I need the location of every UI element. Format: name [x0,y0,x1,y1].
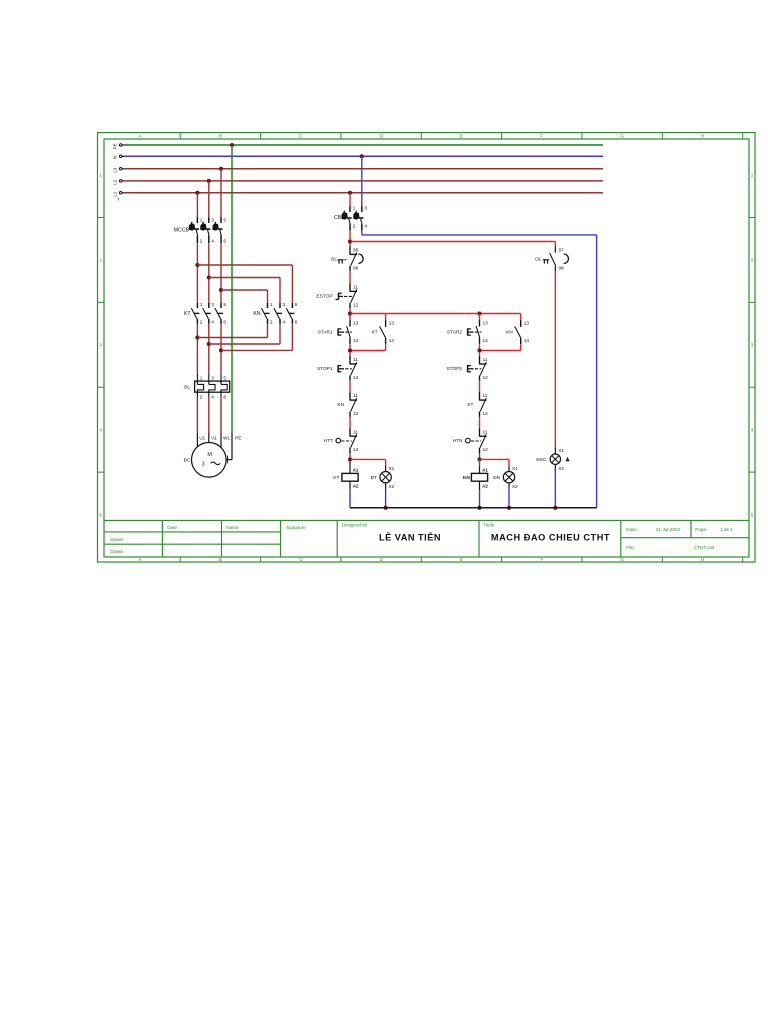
svg-text:3: 3 [282,302,285,308]
svg-text:12: 12 [353,411,359,417]
wire U to motor [196,397,198,433]
junction DT rail [384,506,388,510]
wire DN lamp to rail [508,489,510,508]
junction crossover L1 [195,263,199,267]
svg-text:MACH ĐAO CHIEU CTHT: MACH ĐAO CHIEU CTHT [491,532,610,542]
svg-text:KN: KN [253,311,260,317]
svg-text:11: 11 [353,285,358,291]
svg-text:OL: OL [184,385,191,391]
junction STAR1 out [348,348,352,352]
svg-text:4: 4 [211,239,214,245]
contactor KN main contacts [267,303,269,308]
svg-text:4: 4 [99,427,102,432]
junction DN rail [507,506,511,510]
svg-text:6: 6 [223,239,226,245]
wire KT-HTN [479,417,481,428]
svg-text:12: 12 [353,302,359,308]
svg-text:X2: X2 [389,484,395,489]
svg-text:A1: A1 [353,468,359,473]
svg-text:Signature: Signature [286,525,306,530]
limit switch HTN [479,428,481,436]
wire L1 to CB [349,193,351,207]
svg-text:11: 11 [483,429,488,435]
circuit breaker CB [349,206,351,212]
junction CB out [348,239,352,243]
wire L3 drop [220,169,222,218]
svg-text:14: 14 [483,338,489,344]
wire L1 drop [196,193,198,218]
wire rung2 top [479,314,481,321]
svg-text:Date: Date [167,525,177,530]
svg-text:2: 2 [200,319,203,325]
junction N tap [360,154,364,158]
svg-text:3: 3 [202,462,205,468]
svg-text:G: G [620,133,624,138]
wire STOP1-KN [349,381,351,392]
junction coil KT node [348,457,352,461]
svg-text:6: 6 [223,319,226,325]
svg-text:A2: A2 [353,483,359,488]
svg-text:N: N [112,156,117,159]
svg-text:3: 3 [211,217,214,223]
svg-text:13: 13 [483,320,489,326]
frame row labels 1-5 [98,216,105,218]
svg-text:5: 5 [223,376,226,382]
wire crossover L1-KN5 [197,264,292,266]
svg-text:X2: X2 [512,484,518,489]
svg-text:1: 1 [99,173,102,178]
svg-text:E: E [460,133,463,138]
wire OL-ESTOP [349,271,351,283]
motor M1 [192,443,227,478]
wire node to KT coil [349,459,351,467]
wire KT out V [208,324,210,374]
svg-text:LÊ VAN TIÊN: LÊ VAN TIÊN [379,531,441,542]
svg-text:M: M [207,452,212,458]
svg-text:12: 12 [353,375,359,381]
svg-text:PE: PE [235,435,241,440]
svg-text:F: F [540,133,543,138]
svg-text:Name: Name [226,525,239,530]
junction STAR2 out [477,348,481,352]
svg-text:ESTOP: ESTOP [316,293,332,299]
svg-text:KN: KN [337,402,344,408]
svg-text:F: F [540,557,543,562]
svg-text:13: 13 [353,320,359,326]
wire V to motor [208,397,210,433]
svg-text:11: 11 [353,357,358,363]
svg-text:A1: A1 [482,468,488,473]
svg-text:4: 4 [751,427,754,432]
wire neutral rail [350,507,597,509]
coil KT [342,473,358,481]
svg-text:CTHT.cad: CTHT.cad [694,545,715,550]
title block grid [104,519,749,521]
svg-text:KT: KT [184,311,191,317]
svg-text:STAR2: STAR2 [447,329,462,335]
svg-text:L3: L3 [112,167,117,172]
svg-text:4: 4 [211,395,214,401]
svg-text:B: B [219,557,222,562]
wire KN aux drop [520,314,522,321]
svg-text:1 de 1: 1 de 1 [720,527,733,532]
wire KN coil to rail [479,490,481,508]
svg-text:12: 12 [483,447,489,453]
interlock contact KN 11-12 [349,392,351,400]
node L1 bus [119,192,122,195]
junction crossover L3 [219,288,223,292]
svg-text:1: 1 [353,206,356,212]
wire KN-HTT [349,417,351,428]
wire STAR1 out [349,344,351,356]
wire HTT out [349,453,351,459]
svg-text:OL: OL [331,257,338,263]
svg-text:V1: V1 [211,435,217,440]
svg-text:STOP2: STOP2 [446,366,462,372]
wire CB out red [349,230,351,247]
svg-text:3: 3 [211,376,214,382]
junction DSC rail [553,506,557,510]
svg-text:ĐC: ĐC [184,458,191,464]
svg-text:2: 2 [200,239,203,245]
svg-text:11: 11 [483,357,488,363]
interlock contact KT 11-12 [479,392,481,400]
svg-text:ĐN: ĐN [493,475,500,481]
svg-text:L2: L2 [112,179,117,184]
limit switch HTT [349,428,351,436]
svg-text:PE: PE [112,143,117,149]
svg-text:2: 2 [200,395,203,401]
svg-text:Titulo: Titulo [483,523,495,528]
wire HTN out green [479,453,481,459]
svg-text:X1: X1 [558,448,564,453]
svg-text:File:: File: [626,545,635,550]
wire DN lamp feed [480,458,510,460]
svg-text:KN: KN [506,329,513,335]
svg-text:Date:: Date: [626,527,637,532]
svg-text:2: 2 [270,319,273,325]
junction L3 tap [219,167,223,171]
svg-text:97: 97 [558,247,564,253]
wire PE green [231,145,233,433]
junction KN rail [478,506,482,510]
svg-text:4: 4 [282,319,285,325]
wire N right drop [596,235,598,508]
svg-text:OL: OL [535,257,542,263]
wire KT coil to rail [349,490,351,508]
junction L1 tap control [348,191,352,195]
svg-text:95: 95 [353,248,359,254]
svg-text:2: 2 [751,258,754,263]
svg-text:3: 3 [211,302,214,308]
wire N branch [361,230,363,235]
pushbutton STAR2 [479,320,481,327]
junction merge W [219,348,223,352]
svg-text:G: G [620,557,624,562]
svg-text:11: 11 [353,393,358,399]
svg-text:B: B [219,133,222,138]
junction merge U [195,335,199,339]
frame column labels A-H [179,133,181,139]
wire N to CB [361,156,363,206]
wire KT out U [196,324,198,374]
junction rung2 feed [477,311,481,315]
svg-text:KT: KT [371,329,377,335]
svg-text:X1: X1 [512,466,518,471]
wire DT lamp to rail [385,489,387,508]
border frame [98,133,756,562]
svg-text:13: 13 [524,320,530,326]
coil KN [471,473,487,481]
svg-text:HTT: HTT [324,438,333,444]
svg-text:STAR1: STAR1 [317,329,332,335]
svg-text:Drawn: Drawn [110,537,124,542]
svg-text:1: 1 [200,217,203,223]
wire W to motor [220,397,222,433]
wire KN out 2 [267,324,269,338]
pushbutton STOP1 [349,356,351,364]
wire KT aux bottom [385,344,387,350]
wire W phase MCCB-KT [220,244,222,303]
svg-text:MCCB: MCCB [174,227,190,233]
svg-text:1: 1 [200,302,203,308]
svg-text:5: 5 [295,302,298,308]
overload contact OL 97-98 [554,246,556,252]
svg-text:KT: KT [333,475,339,481]
contact KN aux 13-14 [520,320,522,327]
svg-text:H: H [701,557,704,562]
junction rung feed [348,311,352,315]
svg-text:6: 6 [223,395,226,401]
svg-text:Designed by: Designed by [342,523,368,528]
svg-text:11: 11 [353,429,358,435]
wire STAR2 out [479,344,481,356]
svg-text:98: 98 [558,266,564,272]
svg-text:5: 5 [223,217,226,223]
wire KN out 6 [291,324,293,351]
node PE bus [119,144,122,147]
node N bus [119,155,122,158]
svg-text:X1: X1 [389,466,395,471]
svg-text:5: 5 [223,302,226,308]
wire trip lamp feed [350,241,555,243]
svg-text:3: 3 [364,206,367,212]
svg-text:2: 2 [99,258,102,263]
svg-text:1: 1 [270,302,273,308]
svg-text:14: 14 [353,338,359,344]
wire DSC to rail [554,469,556,508]
wire DT lamp feed [350,458,386,460]
wire rung feed horizontal [350,313,521,315]
junction L1 tap MCCB [195,191,199,195]
overload contact OL 95-96 [349,246,351,254]
svg-text:3: 3 [99,343,102,348]
svg-text:4: 4 [364,223,367,229]
node L3 bus [119,168,122,171]
wire KN out 4 [279,324,281,344]
svg-text:5: 5 [99,512,102,517]
lamp DT [385,466,387,472]
svg-text:1: 1 [751,173,754,178]
svg-text:2: 2 [353,223,356,229]
lamp DSC [554,448,556,454]
contact KT aux 13-14 [385,320,387,327]
svg-text:H: H [701,133,704,138]
svg-text:21-Jul-2022: 21-Jul-2022 [656,527,681,532]
svg-text:KT: KT [467,402,473,408]
svg-text:E: E [460,557,463,562]
junction coil KN node [477,457,481,461]
svg-text:11: 11 [483,393,488,399]
wire KN aux bottom [520,344,522,350]
wire V phase MCCB-KT [208,244,210,303]
junction crossover L2 [207,275,211,279]
svg-text:CB: CB [334,215,342,221]
svg-text:96: 96 [353,265,359,271]
wire KT aux drop [385,314,387,321]
wire crossover L3-KN1 [221,289,268,291]
wire OL98 down [554,271,556,449]
svg-text:W1: W1 [223,435,230,440]
svg-text:HTN: HTN [453,438,463,444]
emergency stop ESTOP [349,283,351,291]
wire crossover L2-KN3 [209,277,280,279]
svg-text:4: 4 [211,319,214,325]
lamp DN [508,466,510,472]
svg-text:A2: A2 [482,483,488,488]
svg-text:ĐSC: ĐSC [536,457,547,463]
svg-text:Page:: Page: [695,527,707,532]
wire U phase MCCB-KT [196,244,198,303]
node L2 bus [119,180,122,183]
svg-text:X2: X2 [558,466,564,471]
junction L2 tap [207,179,211,183]
junction merge V [207,342,211,346]
svg-text:13: 13 [389,320,395,326]
wire ESTOP out [349,308,351,320]
svg-text:1: 1 [200,376,203,382]
svg-text:5: 5 [751,512,754,517]
pushbutton STAR1 [349,320,351,327]
svg-text:12: 12 [483,411,489,417]
svg-text:14: 14 [389,338,395,344]
svg-text:12: 12 [483,375,489,381]
contactor KT main contacts [196,303,198,308]
junction PE tap [230,143,234,147]
svg-text:U1: U1 [199,435,205,440]
overload relay OL heaters [195,381,230,392]
wire STOP2-KT [479,381,481,392]
svg-text:12: 12 [353,447,359,453]
svg-text:KN: KN [463,475,470,481]
pushbutton STOP2 [479,356,481,364]
svg-text:3: 3 [751,343,754,348]
wire L2 drop [208,181,210,218]
wire PE into motor [231,433,233,460]
svg-text:14: 14 [524,338,530,344]
wire KT out W [220,324,222,374]
wire node to KN coil green [479,459,481,466]
svg-text:ĐT: ĐT [371,475,377,481]
svg-text:Drawn: Drawn [110,549,124,554]
circuit breaker MCCB [196,217,198,223]
svg-text:6: 6 [295,319,298,325]
svg-text:STOP1: STOP1 [317,366,333,372]
